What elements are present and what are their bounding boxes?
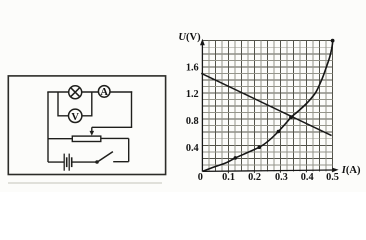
data point dot 2 bbox=[258, 145, 262, 149]
svg-text:0.3: 0.3 bbox=[275, 172, 288, 183]
voltmeter V (circle) bbox=[69, 109, 82, 122]
svg-text:0.1: 0.1 bbox=[222, 172, 235, 183]
x axis tick extensions bbox=[228, 170, 332, 173]
rheostat R body bbox=[72, 136, 101, 141]
svg-text:0.2: 0.2 bbox=[248, 172, 261, 183]
wire: voltmeter branch left drop bbox=[58, 92, 69, 116]
wire: ammeter A to right corner bbox=[110, 91, 132, 93]
lamp I-V curve (rising) bbox=[203, 41, 333, 172]
svg-text:I(A): I(A) bbox=[341, 165, 361, 176]
paper background bbox=[0, 0, 366, 192]
wire: switch contact piece bbox=[113, 161, 129, 163]
wire: row2 right (rheostat right terminal to right vertical) bbox=[101, 137, 129, 139]
svg-text:1.2: 1.2 bbox=[186, 89, 199, 100]
svg-text:A: A bbox=[100, 87, 108, 98]
y axis U bbox=[201, 44, 203, 172]
svg-text:0.8: 0.8 bbox=[186, 116, 199, 127]
wire: top row, node to lamp L bbox=[47, 91, 69, 93]
svg-text:0.4: 0.4 bbox=[186, 143, 199, 154]
circuit enclosure box bbox=[8, 76, 165, 175]
x axis arrowhead bbox=[332, 168, 338, 173]
svg-text:0.4: 0.4 bbox=[301, 172, 314, 183]
switch S blade bbox=[97, 152, 113, 163]
svg-text:U(V): U(V) bbox=[178, 32, 201, 43]
data point dot 3 bbox=[277, 130, 281, 134]
wire: voltmeter branch right rise bbox=[82, 92, 92, 116]
x axis I bbox=[202, 170, 333, 171]
svg-text:0.5: 0.5 bbox=[326, 172, 339, 183]
svg-text:V: V bbox=[71, 112, 79, 123]
wire: bottom row, battery to switch pivot bbox=[72, 161, 97, 163]
lamp L (circle with X) bbox=[69, 86, 82, 99]
curve end dot bbox=[331, 39, 335, 43]
switch S pivot dot bbox=[95, 160, 99, 164]
graph grid minor lines bbox=[202, 41, 332, 172]
wire: right vertical lower (to switch contact) bbox=[128, 138, 130, 161]
rheostat slider arrowhead bbox=[90, 131, 95, 136]
graph grid major lines bbox=[202, 41, 332, 172]
battery cells bbox=[64, 154, 72, 171]
wire: right vertical upper (to rheostat slider jog) bbox=[131, 91, 133, 127]
svg-text:1.6: 1.6 bbox=[186, 62, 199, 73]
wire: slider stem bbox=[91, 127, 93, 132]
data point dot 1 bbox=[234, 156, 238, 160]
wire: jog to rheostat slider bbox=[92, 126, 132, 128]
wire: lamp L to ammeter A bbox=[82, 91, 99, 93]
y axis arrowhead bbox=[200, 39, 205, 45]
wire: left vertical (battery negative riser) bbox=[47, 92, 49, 162]
ammeter A (circle) bbox=[98, 86, 110, 98]
battery terminal line (straight descending) bbox=[201, 73, 331, 135]
intersection dot bbox=[289, 115, 293, 119]
svg-text:0: 0 bbox=[198, 172, 203, 183]
wire: bottom row, node to battery bbox=[48, 161, 64, 163]
wire: row2 left (node to rheostat left terminal) bbox=[48, 138, 72, 140]
faint scan artifact line under circuit box bbox=[8, 182, 162, 184]
